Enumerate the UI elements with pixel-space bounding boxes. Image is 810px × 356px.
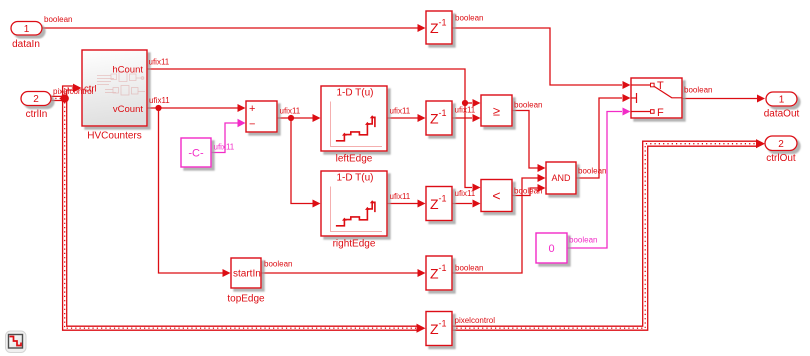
relational operator lt bbox=[481, 180, 512, 212]
node junction sum output bbox=[288, 115, 294, 121]
svg-text:AND: AND bbox=[551, 173, 571, 183]
wire delay2 to gte second input bbox=[452, 114, 481, 122]
svg-text:ctrlIn: ctrlIn bbox=[26, 109, 48, 120]
unit delay5 (pixelcontrol) bbox=[426, 312, 452, 346]
wire vCount branch to topEdge bbox=[159, 108, 231, 277]
svg-text:≥: ≥ bbox=[493, 104, 500, 119]
lookup table leftEdge bbox=[321, 86, 387, 151]
svg-text:ufix11: ufix11 bbox=[149, 58, 170, 67]
unit delay3 (rightEdge) bbox=[426, 187, 452, 221]
bus wire delay5 to ctrlOut bbox=[452, 139, 765, 330]
wire switch to dataOut bbox=[682, 95, 765, 103]
wire delay3 to lt second input bbox=[452, 200, 481, 208]
svg-text:+: + bbox=[249, 103, 255, 115]
wire lt to AND input3 bbox=[512, 184, 546, 196]
svg-text:ufix11: ufix11 bbox=[390, 107, 411, 116]
outport 2 ctrlOut bbox=[765, 136, 797, 151]
bus wire junction up to HVCounters ctrl input bbox=[63, 84, 82, 98]
svg-text:boolean: boolean bbox=[514, 101, 542, 110]
svg-text:2: 2 bbox=[33, 94, 39, 105]
inport 1 dataIn bbox=[11, 22, 42, 36]
svg-text:ctrlOut: ctrlOut bbox=[766, 153, 796, 164]
wire vCount to sum plus input bbox=[147, 104, 246, 112]
svg-text:ufix11: ufix11 bbox=[214, 143, 235, 152]
svg-text:boolean: boolean bbox=[44, 15, 72, 24]
svg-text:ufix11: ufix11 bbox=[149, 96, 170, 105]
svg-text:dataOut: dataOut bbox=[764, 109, 800, 120]
inport 2 ctrlIn bbox=[21, 92, 51, 106]
svg-text:boolean: boolean bbox=[578, 167, 606, 176]
bus wire junction down and right to delay5 bbox=[63, 98, 426, 333]
svg-text:-1: -1 bbox=[439, 263, 447, 273]
svg-text:boolean: boolean bbox=[455, 264, 483, 273]
svg-text:ufix11: ufix11 bbox=[280, 107, 301, 116]
svg-text:ufix11: ufix11 bbox=[455, 189, 476, 198]
svg-text:pixelcontrol: pixelcontrol bbox=[53, 87, 94, 96]
svg-text:rightEdge: rightEdge bbox=[333, 239, 376, 250]
wire leftEdge to delay2 bbox=[387, 114, 426, 122]
logical operator AND bbox=[546, 162, 576, 194]
wire delay1 to switch T input bbox=[452, 28, 631, 89]
wire delay4 to AND input2 bbox=[452, 174, 546, 273]
bus wire ctrlIn to junction bbox=[51, 96, 67, 100]
wire constant0 to switch F input (magenta) bbox=[567, 108, 631, 249]
svg-text:2: 2 bbox=[778, 139, 784, 150]
svg-text:boolean: boolean bbox=[455, 14, 483, 23]
svg-text:ufix11: ufix11 bbox=[455, 106, 476, 115]
wire gte to AND input1 bbox=[512, 111, 546, 173]
relational operator gte bbox=[481, 95, 512, 126]
svg-text:startIn: startIn bbox=[233, 269, 261, 280]
svg-text:0: 0 bbox=[548, 243, 554, 255]
svg-text:vCount: vCount bbox=[113, 104, 143, 115]
unit delay4 (topEdge) bbox=[426, 256, 452, 290]
wire constantC to sum minus input (magenta) bbox=[211, 119, 246, 153]
svg-text:-1: -1 bbox=[439, 194, 447, 204]
svg-text:dataIn: dataIn bbox=[12, 39, 40, 50]
svg-text:-1: -1 bbox=[439, 319, 447, 329]
svg-text:hCount: hCount bbox=[112, 65, 143, 76]
node bus junction ctrlIn bbox=[60, 94, 68, 102]
subsystem HVCounters bbox=[82, 50, 147, 126]
svg-text:boolean: boolean bbox=[514, 187, 542, 196]
svg-text:1-D T(u): 1-D T(u) bbox=[336, 88, 373, 99]
constant 0 (magenta) bbox=[536, 233, 567, 263]
svg-text:F: F bbox=[657, 107, 664, 119]
constant -C- (magenta) bbox=[181, 138, 211, 167]
wire sum to leftEdge bbox=[277, 114, 321, 122]
wire rightEdge to delay3 bbox=[387, 200, 426, 208]
svg-text:boolean: boolean bbox=[684, 86, 712, 95]
svg-text:1: 1 bbox=[779, 95, 785, 106]
unit delay2 (leftEdge) bbox=[426, 101, 452, 135]
lookup table rightEdge bbox=[321, 171, 387, 236]
svg-text:1-D T(u): 1-D T(u) bbox=[336, 173, 373, 184]
wire AND to switch control input bbox=[576, 94, 631, 178]
wire hCount to gte and lt first inputs bbox=[147, 69, 481, 192]
unit delay1 (dataIn) bbox=[426, 11, 452, 44]
svg-text:-1: -1 bbox=[439, 18, 447, 28]
svg-text:pixelcontrol: pixelcontrol bbox=[455, 316, 496, 325]
svg-text:-C-: -C- bbox=[188, 148, 204, 160]
wire sum branch to rightEdge bbox=[291, 118, 321, 208]
badge sample time legend icon bbox=[6, 331, 27, 353]
svg-text:-1: -1 bbox=[439, 108, 447, 118]
sum block bbox=[246, 101, 277, 132]
subsystem topEdge bbox=[231, 258, 261, 288]
svg-text:1: 1 bbox=[24, 24, 30, 35]
switch block bbox=[631, 78, 682, 119]
node junction hCount branch bbox=[462, 100, 468, 106]
svg-text:boolean: boolean bbox=[264, 260, 292, 269]
svg-text:leftEdge: leftEdge bbox=[336, 154, 373, 165]
svg-text:<: < bbox=[492, 188, 500, 204]
svg-text:ufix11: ufix11 bbox=[390, 192, 411, 201]
node junction vCount bbox=[155, 105, 161, 111]
outport 1 dataOut bbox=[766, 92, 797, 106]
svg-text:−: − bbox=[249, 119, 255, 131]
wire topEdge to delay4 bbox=[261, 269, 426, 277]
svg-text:HVCounters: HVCounters bbox=[87, 131, 141, 142]
svg-text:boolean: boolean bbox=[569, 236, 597, 245]
svg-text:topEdge: topEdge bbox=[227, 294, 265, 305]
wire dataIn to delay1 bbox=[42, 24, 426, 32]
